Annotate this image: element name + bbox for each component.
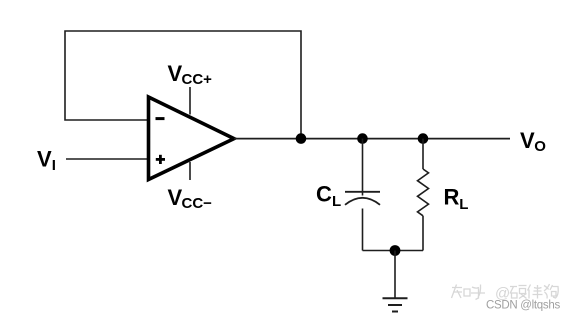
wire: VI input to non-inverting input (66, 158, 149, 160)
svg-text:R: R (444, 185, 460, 210)
label RL (444, 185, 469, 213)
label VI (37, 147, 56, 175)
svg-text:C: C (316, 182, 332, 207)
svg-text:I: I (52, 157, 56, 174)
svg-text:V: V (37, 147, 52, 172)
watermark: zhihu @yingjiangou (CJK drawn) (452, 284, 559, 300)
svg-text:V: V (168, 185, 183, 210)
node: CL junction (357, 133, 368, 144)
label VO (520, 128, 546, 155)
resistor RL (418, 139, 429, 251)
label VCC- (168, 185, 213, 212)
svg-text:L: L (459, 196, 468, 213)
power VCC+ pin (189, 87, 191, 115)
svg-text:L: L (332, 193, 341, 210)
svg-text:CC−: CC− (182, 195, 213, 212)
op-amp U1 (149, 97, 235, 180)
node: ground junction (390, 245, 401, 256)
svg-text:V: V (520, 128, 535, 153)
label VCC+ (168, 61, 213, 88)
power VCC- pin (189, 162, 191, 180)
svg-text:CC+: CC+ (182, 71, 213, 88)
wire: output (234, 138, 510, 140)
svg-text:V: V (168, 61, 183, 86)
label CL (316, 182, 341, 210)
node: feedback junction (296, 133, 307, 144)
svg-text:O: O (534, 138, 546, 155)
capacitor CL (345, 139, 380, 251)
ground (383, 251, 408, 312)
wire: bottom rail (363, 250, 424, 252)
svg-text:CSDN @ltqshs: CSDN @ltqshs (486, 300, 560, 312)
wire: feedback loop (output to inverting input) (65, 31, 301, 139)
node: RL junction (418, 133, 429, 144)
